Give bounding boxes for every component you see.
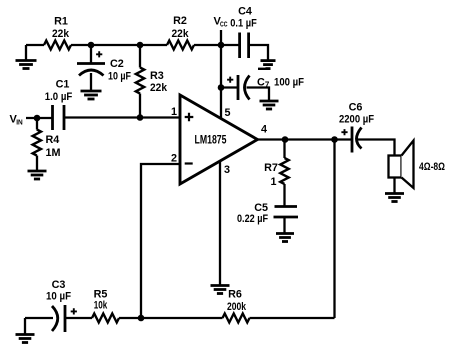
svg-text:4: 4 [261, 124, 267, 136]
ground (speaker) [385, 192, 404, 195]
resistor R7 (1 ohm Zobel) [283, 140, 285, 207]
svg-text:10k: 10k [94, 300, 108, 312]
svg-text:IN: IN [16, 118, 23, 127]
svg-text:CC: CC [220, 20, 228, 29]
ground (pin 3) [211, 284, 230, 287]
ground (below C7) [260, 100, 279, 103]
svg-text:22k: 22k [172, 28, 190, 40]
capacitor C6 (2200uF output) [351, 127, 354, 153]
svg-text:22k: 22k [150, 82, 168, 94]
svg-text:200k: 200k [227, 301, 247, 313]
resistor R2 [167, 41, 194, 50]
node: junction R1/C2 [88, 42, 95, 49]
resistor R3 [139, 45, 141, 118]
svg-text:3: 3 [224, 164, 230, 176]
ground (C3 return) [16, 333, 35, 336]
svg-text:1: 1 [270, 176, 276, 188]
op-amp U1 LM1875 triangle [180, 95, 258, 184]
svg-text:10 µF: 10 µF [108, 71, 131, 83]
wire: left ground stem [25, 45, 27, 60]
speaker 4-8 ohm [389, 156, 402, 178]
wire: bottom feedback rail [65, 317, 335, 319]
node: junction R5/R6/pin2 [138, 315, 145, 322]
resistor R1 [44, 41, 71, 50]
svg-text:2200 µF: 2200 µF [339, 114, 374, 126]
wire: pin 2 feedback down [141, 164, 180, 318]
svg-text:R4: R4 [46, 134, 60, 146]
svg-text:10 µF: 10 µF [46, 291, 71, 303]
svg-text:R2: R2 [173, 15, 187, 27]
resistor R4 (1M) [36, 118, 38, 170]
wire: speaker ground stem [393, 178, 395, 194]
svg-text:100 µF: 100 µF [274, 77, 304, 89]
capacitor C7 (100uF supply) [221, 88, 269, 101]
wire: pin 1 line [64, 116, 180, 118]
node: junction C6/feedback [331, 136, 338, 143]
svg-text:2: 2 [171, 153, 177, 165]
svg-text:1M: 1M [46, 147, 61, 159]
capacitor C1 (1.0uF input) [51, 105, 54, 130]
wire: Vcc vertical to op-amp pin 5 [220, 30, 222, 119]
resistor R6 (200k) [223, 314, 250, 323]
node: junction C7 tap [218, 84, 225, 91]
svg-text:0.22 µF: 0.22 µF [237, 213, 268, 225]
svg-text:R6: R6 [228, 289, 242, 301]
svg-text:0.1 µF: 0.1 µF [230, 18, 257, 30]
svg-text:R3: R3 [150, 70, 164, 82]
svg-text:R1: R1 [54, 16, 68, 28]
svg-text:4Ω-8Ω: 4Ω-8Ω [419, 161, 445, 173]
node: junction R7 [282, 136, 289, 143]
svg-text:1: 1 [171, 106, 177, 118]
svg-text:LM1875: LM1875 [195, 133, 227, 147]
wire: C3 left ground stem [24, 318, 26, 334]
capacitor C2 (10uF bypass) [90, 45, 92, 90]
svg-text:C2: C2 [110, 58, 124, 70]
ground (below C4) [261, 59, 276, 62]
wire: output pin 4 [258, 140, 395, 156]
ground (below R4) [28, 170, 47, 173]
svg-text:1.0 µF: 1.0 µF [45, 91, 73, 103]
wire: pin 3 to ground [219, 161, 221, 285]
capacitor C4 (0.1uF supply bypass) [221, 45, 268, 60]
node: junction R2/R3 [137, 42, 144, 49]
capacitor C5 (0.22uF Zobel) [275, 205, 298, 208]
svg-text:22k: 22k [52, 28, 70, 40]
resistor R5 (10k) [92, 314, 119, 323]
capacitor C3 (10uF feedback) [25, 317, 65, 319]
svg-text:C1: C1 [56, 79, 70, 91]
ground (below C2) [81, 90, 102, 93]
wire: top rail from left ground to Vcc node [26, 44, 221, 46]
ground (below C5) [276, 232, 294, 235]
svg-text:5: 5 [224, 107, 230, 119]
svg-text:C6: C6 [349, 102, 363, 114]
node: Vcc junction [218, 42, 225, 49]
node: Vin junction [34, 115, 41, 122]
ground (top-left, input bias return) [16, 59, 37, 62]
svg-text:R7: R7 [264, 162, 278, 174]
wire: feedback right leg down from output [333, 140, 335, 319]
wire: Vin lead [26, 117, 53, 119]
svg-text:C4: C4 [238, 6, 252, 18]
svg-text:C3: C3 [52, 279, 66, 291]
node: junction R3/pin1 [137, 114, 144, 121]
